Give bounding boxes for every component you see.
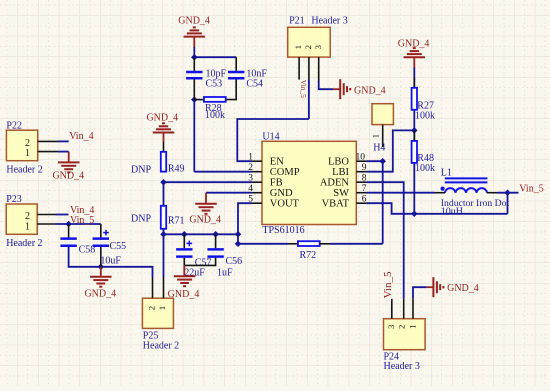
node bottom rail R71: [160, 231, 167, 238]
pin U14.8 ADEN: [356, 181, 366, 183]
svg-text:LBI: LBI: [332, 167, 349, 178]
pin P22.2: [38, 140, 58, 142]
node R27/R48: [411, 127, 418, 134]
wire LBI: [367, 130, 415, 171]
svg-text:GND_4: GND_4: [178, 16, 210, 27]
node LBO/H4: [379, 158, 386, 165]
pin P25.2: [152, 277, 154, 298]
wire node to COMP: [193, 100, 195, 172]
svg-text:C56: C56: [226, 256, 243, 267]
pin H4.1: [382, 125, 384, 147]
svg-text:R72: R72: [300, 250, 317, 261]
svg-text:10nF: 10nF: [246, 68, 267, 79]
capacitor C54: [228, 71, 244, 74]
power GND_4 at GND pin: [205, 193, 207, 203]
svg-text:7: 7: [362, 184, 367, 194]
wire P24 pin1 to GND: [413, 287, 426, 299]
pin P21.1: [298, 57, 300, 80]
svg-text:1: 1: [25, 148, 30, 159]
wire R27 column: [413, 67, 415, 88]
capacitor C53: [186, 71, 202, 74]
svg-text:P23: P23: [6, 194, 22, 205]
svg-text:2: 2: [397, 325, 407, 329]
node C57 top: [181, 231, 188, 238]
power GND_4 at C57: [183, 265, 185, 275]
svg-text:SW: SW: [333, 188, 349, 199]
svg-text:C55: C55: [110, 241, 127, 252]
pin P25.1: [163, 277, 165, 298]
svg-text:H4: H4: [373, 143, 385, 154]
node C56 top: [212, 231, 219, 238]
wire Vin_5 to EN corner: [237, 119, 309, 161]
capacitor C57: [183, 234, 185, 248]
pin P24.3: [391, 299, 393, 319]
power GND_4 right of P24: [426, 286, 433, 288]
svg-text:1: 1: [248, 153, 253, 163]
wire R71 bottom to P25: [163, 229, 165, 277]
pin P22.1: [38, 151, 58, 153]
svg-text:2: 2: [25, 211, 30, 222]
wire COMP horizontal: [194, 171, 252, 173]
pin P21.3: [318, 57, 320, 81]
resistor R49: [161, 152, 166, 172]
wire SW to L1: [367, 192, 435, 194]
pin P24.2: [403, 299, 405, 319]
wire R71 column: [163, 182, 165, 206]
svg-text:9: 9: [362, 163, 367, 173]
svg-text:C53: C53: [206, 79, 223, 90]
svg-text:1: 1: [293, 45, 303, 49]
wire C55 pin down: [100, 224, 102, 237]
svg-text:GND_4: GND_4: [354, 85, 386, 96]
wire R48 bottom: [413, 163, 415, 214]
wire C58 pin down: [68, 224, 70, 237]
svg-text:1uF: 1uF: [217, 267, 233, 278]
wire L1 right to Vin_5: [497, 192, 519, 194]
svg-text:1: 1: [25, 222, 30, 233]
wire P21 pin3 to GND: [319, 81, 333, 89]
node C55 bottom: [98, 264, 105, 271]
wire GND to C53/C54 node: [193, 47, 195, 58]
svg-text:GND: GND: [270, 188, 293, 199]
wire R49 top: [163, 142, 165, 152]
resistor R28: [204, 97, 226, 102]
svg-text:Header 3: Header 3: [384, 361, 420, 372]
power GND_4 at P22: [68, 152, 70, 162]
wire VBAT: [367, 203, 508, 214]
pin P21.2: [308, 57, 310, 79]
pin P23.2: [37, 214, 55, 216]
wire C58/C55 Vin_5: [56, 223, 101, 225]
svg-text:8: 8: [362, 174, 367, 184]
capacitor C58: [60, 237, 76, 240]
svg-text:ADEN: ADEN: [320, 178, 350, 189]
svg-text:2: 2: [146, 306, 156, 310]
svg-text:3: 3: [313, 44, 323, 49]
node VBAT/R48: [411, 211, 418, 218]
wire LBO: [367, 160, 383, 162]
capacitor C55: [93, 237, 109, 240]
svg-text:Vin_4: Vin_4: [69, 131, 93, 142]
power GND_4 right of P21: [333, 88, 340, 90]
pin U14.5 VOUT: [252, 202, 262, 204]
wire P22 pin1 to GND: [58, 151, 69, 153]
svg-text:C54: C54: [246, 79, 263, 90]
wire C56 bottom jog: [184, 258, 215, 266]
svg-text:P22: P22: [6, 121, 22, 132]
wire GND pin4: [206, 192, 252, 194]
wire L1 out down: [507, 193, 509, 214]
svg-text:GND_4: GND_4: [447, 283, 479, 294]
wire P22 Vin_4: [58, 140, 69, 142]
pin C53 bottom: [193, 79, 195, 99]
svg-text:Header 2: Header 2: [143, 341, 179, 352]
pin P24.1: [412, 299, 414, 319]
ic U14 TPS61016: [262, 141, 356, 224]
wire R72 right to LBO column: [330, 243, 383, 245]
svg-text:R49: R49: [168, 163, 185, 174]
wire VOUT to bottom rail: [238, 203, 252, 234]
svg-text:10pF: 10pF: [206, 68, 227, 79]
resistor R71: [161, 206, 166, 229]
connector P23: [6, 204, 37, 234]
connector P21: [288, 27, 331, 57]
wire bottom rail: [164, 233, 239, 235]
wire LBO column down: [382, 161, 384, 244]
power GND_4 at C55: [100, 267, 102, 276]
svg-text:TPS61016: TPS61016: [262, 225, 304, 236]
node C58 top: [65, 221, 72, 228]
resistor R72: [288, 243, 298, 245]
resistor R48: [413, 130, 415, 141]
svg-text:6: 6: [362, 195, 367, 205]
svg-text:VOUT: VOUT: [270, 199, 300, 210]
node R72 left: [235, 241, 242, 248]
resistor R27: [413, 78, 415, 88]
svg-text:FB: FB: [270, 178, 283, 189]
connector P25: [142, 298, 173, 328]
svg-text:1: 1: [407, 325, 417, 329]
wire P23 Vin_4: [56, 214, 69, 216]
pin U14.4 GND: [252, 192, 262, 194]
svg-text:1: 1: [370, 134, 380, 138]
svg-text:10uH: 10uH: [441, 206, 463, 217]
svg-text:GND_4: GND_4: [52, 171, 84, 182]
svg-text:GND_4: GND_4: [84, 289, 116, 300]
svg-text:2: 2: [303, 45, 313, 49]
connector P22: [6, 130, 37, 161]
svg-text:GND_4: GND_4: [168, 289, 200, 300]
svg-text:10uF: 10uF: [100, 255, 121, 266]
wire C54 to R28: [227, 79, 237, 99]
svg-text:Vin_5: Vin_5: [382, 271, 394, 298]
pin P23.1: [37, 223, 55, 225]
pin C57 bottom: [183, 258, 185, 266]
pin U14.3 FB: [252, 181, 262, 183]
svg-text:Vin_5: Vin_5: [299, 80, 308, 98]
svg-text:R71: R71: [168, 216, 185, 227]
svg-text:2: 2: [248, 163, 253, 173]
svg-text:VBAT: VBAT: [322, 199, 350, 210]
svg-text:L1: L1: [441, 167, 452, 178]
svg-text:COMP: COMP: [270, 167, 300, 178]
wire FB horizontal: [164, 181, 253, 183]
pin L1 right: [487, 192, 497, 194]
wire P21 pin2 down: [308, 80, 310, 120]
pin U14.7 SW: [356, 192, 366, 194]
svg-text:1: 1: [157, 306, 167, 310]
pin U14.1 EN: [252, 160, 262, 162]
svg-text:Header 2: Header 2: [6, 165, 42, 176]
svg-text:EN: EN: [270, 157, 284, 168]
svg-text:P21: P21: [289, 15, 305, 26]
svg-text:Vin_5: Vin_5: [70, 215, 94, 226]
svg-text:DNP: DNP: [131, 213, 151, 224]
svg-text:5: 5: [248, 195, 253, 205]
svg-text:3: 3: [248, 174, 253, 184]
pin U14.10 LBO: [356, 160, 366, 162]
svg-text:100k: 100k: [415, 163, 435, 174]
svg-text:DNP: DNP: [131, 164, 151, 175]
svg-text:Vin_5: Vin_5: [519, 183, 543, 194]
pin U14.6 VBAT: [356, 202, 366, 204]
svg-text:GND_4: GND_4: [189, 214, 221, 225]
pin U14.2 COMP: [252, 171, 262, 173]
node VOUT rail: [235, 231, 242, 238]
wire VOUT rail to R72: [238, 234, 288, 244]
node R28/C53: [191, 96, 198, 103]
svg-text:100k: 100k: [415, 111, 435, 122]
svg-text:GND_4: GND_4: [146, 112, 178, 123]
node FB/R49: [160, 179, 167, 186]
wire R28 left pin: [194, 99, 203, 101]
svg-text:10: 10: [356, 153, 366, 163]
pin L1 left: [435, 192, 445, 194]
connector P24: [384, 319, 426, 350]
svg-text:U14: U14: [262, 131, 279, 142]
wire ADEN to P24 pin2: [367, 182, 404, 299]
pin C53 top: [193, 57, 195, 71]
node C53 top: [191, 54, 198, 61]
svg-text:3: 3: [386, 324, 396, 329]
capacitor C56: [215, 234, 217, 248]
svg-text:Header 2: Header 2: [6, 238, 42, 249]
wire C55 bottom pin: [100, 247, 102, 267]
connector H4: [372, 104, 393, 125]
wire C54 branch: [235, 57, 237, 71]
node L1 out: [504, 189, 511, 196]
svg-text:LBO: LBO: [328, 157, 349, 168]
svg-text:100k: 100k: [205, 110, 225, 121]
wire C53/C54 top rail: [194, 56, 236, 58]
pin U14.9 LBI: [356, 171, 366, 173]
svg-text:Header 3: Header 3: [311, 15, 347, 26]
wire C58 bottom to P25 pin2: [69, 247, 153, 277]
svg-text:4: 4: [248, 184, 253, 194]
wire R27-R48: [413, 110, 415, 141]
